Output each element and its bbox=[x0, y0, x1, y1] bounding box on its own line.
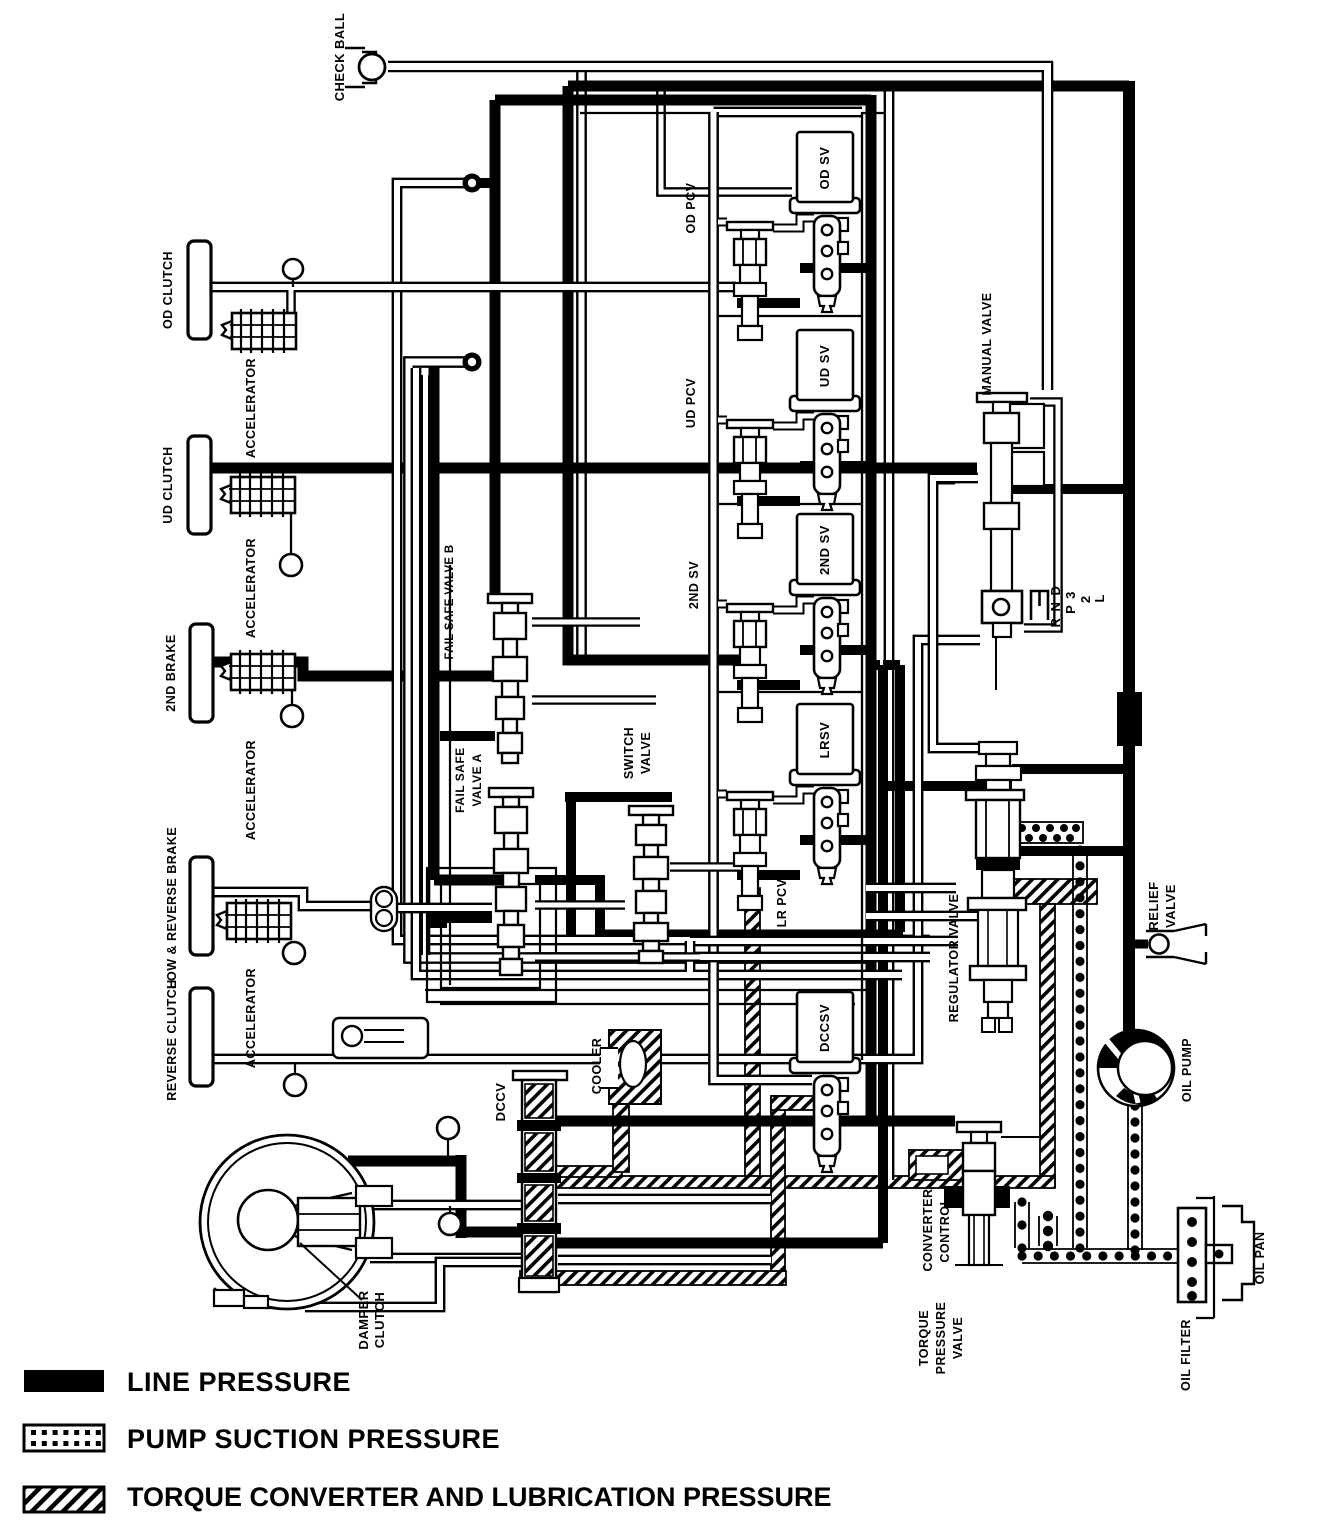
solenoid stem DCCSV bbox=[814, 1076, 848, 1172]
wire tap from check ball line bbox=[576, 72, 587, 655]
svg-text:UD PCV: UD PCV bbox=[684, 378, 698, 428]
wire left pipe bundle D bbox=[421, 375, 431, 955]
svg-text:TORQUE CONVERTER AND LUBRICATI: TORQUE CONVERTER AND LUBRICATION PRESSUR… bbox=[127, 1482, 832, 1512]
wire valve body top pipe bbox=[714, 107, 863, 118]
valve MANUAL VALVE bbox=[977, 393, 1044, 690]
wire valve body right edge bbox=[861, 112, 863, 1060]
solenoid valve 2ND SV bbox=[790, 514, 860, 595]
wire suction converter control bbox=[1015, 1197, 1029, 1252]
svg-text:CHECK BALL: CHECK BALL bbox=[332, 13, 347, 102]
svg-text:CONTROL: CONTROL bbox=[938, 1197, 952, 1262]
wire manual valve to regulator pipe bbox=[933, 478, 1013, 748]
valve DCCV bbox=[513, 1071, 567, 1292]
wire thick 2ND PCV stub bbox=[737, 680, 800, 690]
svg-text:REGULATOR VALVE: REGULATOR VALVE bbox=[947, 894, 961, 1023]
wire band extra line 1 bbox=[425, 989, 868, 991]
label LINE PRESSURE bbox=[127, 1367, 351, 1397]
valve FAIL SAFE VALVE A bbox=[489, 788, 533, 975]
label FAIL SAFE VALVE B bbox=[444, 544, 456, 659]
svg-text:OIL PAN: OIL PAN bbox=[1253, 1231, 1267, 1284]
wire thick relief valve stub bbox=[1135, 940, 1148, 949]
svg-text:RELIEF: RELIEF bbox=[1146, 881, 1161, 930]
wire LR PCV feed bbox=[718, 790, 727, 799]
oil pan bbox=[1196, 1196, 1254, 1318]
wire switch valve to LR PCV pipe bbox=[670, 862, 740, 872]
label SWITCH VALVE line2 bbox=[639, 732, 653, 774]
svg-text:UD SV: UD SV bbox=[817, 345, 832, 387]
legend torque converter swatch bbox=[24, 1487, 104, 1512]
valve LR PCV bbox=[727, 792, 773, 910]
valve 2ND PCV bbox=[727, 604, 773, 722]
label CONTROL bbox=[938, 1197, 952, 1262]
label DCCV bbox=[493, 1083, 508, 1122]
wire hatched stub at converter control bbox=[909, 1150, 964, 1180]
wire thick switch valve feed bbox=[565, 792, 672, 802]
wire OD PCV feed bbox=[718, 218, 727, 227]
solenoid valve UD SV bbox=[790, 330, 860, 411]
svg-text:DAMPER: DAMPER bbox=[356, 1290, 371, 1349]
wire thick band bottom bbox=[602, 930, 903, 939]
wire thick regulator to right bus bbox=[1012, 764, 1129, 774]
label CHECK BALL bbox=[332, 13, 347, 102]
wire thick block left of fail safe A bbox=[430, 908, 447, 928]
wire fail safe B out bbox=[532, 617, 640, 627]
label OD CLUTCH bbox=[161, 251, 175, 329]
brake LOW-REVERSE bar bbox=[190, 857, 213, 955]
svg-text:VALVE: VALVE bbox=[639, 732, 653, 774]
wire low-reverse brake pipe bbox=[212, 892, 372, 906]
wire thick regulator left feed bbox=[880, 781, 1012, 791]
wire thick third vertical bbox=[895, 665, 905, 932]
check ball CHECK BALL bbox=[345, 48, 385, 87]
wire thick UD SV stem stub bbox=[800, 461, 871, 471]
label SWITCH bbox=[622, 727, 636, 779]
label ACCELERATOR 1 bbox=[244, 358, 258, 458]
wire fail safe A out bbox=[535, 900, 625, 910]
wire suction regulator vertical bbox=[1073, 845, 1087, 1252]
wire thick DCCV to converter control line bbox=[556, 1116, 955, 1127]
svg-text:DCCSV: DCCSV bbox=[817, 1004, 832, 1052]
wire OD SV feed pipe bbox=[661, 90, 792, 192]
svg-text:R N D: R N D bbox=[1048, 585, 1063, 628]
svg-text:VALVE A: VALVE A bbox=[470, 753, 484, 806]
label P 3 bbox=[1063, 590, 1078, 614]
solenoid valve LRSV bbox=[790, 704, 860, 785]
node junction A bbox=[463, 174, 482, 193]
svg-text:LINE PRESSURE: LINE PRESSURE bbox=[127, 1367, 351, 1397]
wire thick regulator lower to right bus bbox=[1013, 846, 1129, 856]
wire suction pump down bbox=[1128, 1101, 1142, 1254]
label R N D bbox=[1048, 585, 1063, 628]
label OIL FILTER bbox=[1179, 1319, 1193, 1391]
svg-text:OD CLUTCH: OD CLUTCH bbox=[161, 251, 175, 329]
wire thick stub junction mid bbox=[434, 357, 471, 367]
wire valve body partitions bbox=[718, 316, 862, 692]
wire thick stub junction top bbox=[471, 178, 497, 188]
solenoid stem UD SV bbox=[814, 414, 848, 510]
wire thick third vertical cap bbox=[883, 660, 900, 670]
label MANUAL VALVE bbox=[980, 292, 994, 395]
wire hatched pipe cooler down bbox=[613, 1095, 629, 1172]
wire valve body left pipe bbox=[714, 112, 813, 1080]
accumulator LR bbox=[217, 899, 291, 943]
accumulator UD bbox=[221, 473, 295, 517]
svg-text:CONVERTER: CONVERTER bbox=[921, 1189, 935, 1272]
label REGULATOR VALVE bbox=[947, 894, 961, 1023]
clutch REVERSE bar bbox=[190, 988, 213, 1086]
ball chamber on reverse line bbox=[333, 1018, 428, 1058]
wire thick UD PCV stub bbox=[737, 496, 800, 506]
wire thick right bus block bbox=[1117, 692, 1142, 746]
wire thick into fail safe valve B bbox=[490, 100, 501, 600]
wire thick OD PCV stub bbox=[737, 298, 800, 308]
solenoid stem 2ND SV bbox=[814, 598, 848, 694]
wire thick manual valve stub bbox=[930, 476, 955, 485]
wire suction regulator band bbox=[1013, 822, 1083, 843]
label TORQUE bbox=[917, 1310, 931, 1366]
svg-text:2ND SV: 2ND SV bbox=[687, 561, 701, 609]
wire thick second top bus bbox=[495, 95, 871, 106]
label PRESSURE bbox=[934, 1302, 948, 1375]
wire thick UD clutch line to manual valve bbox=[212, 463, 977, 474]
label 2 bbox=[1078, 595, 1093, 603]
oil filter bbox=[1178, 1208, 1232, 1302]
label FAIL SAFE A line1 bbox=[453, 747, 467, 813]
torque converter bbox=[200, 1135, 392, 1309]
wire DCCV to lube box lower bbox=[558, 1255, 771, 1266]
label 2ND BRAKE bbox=[164, 634, 178, 711]
check ball on OD line bbox=[283, 259, 303, 279]
label FAIL SAFE A line2 bbox=[470, 753, 484, 806]
wire thick OD SV stem stub bbox=[800, 263, 871, 273]
wire thick top bus bbox=[568, 81, 1129, 92]
wire thick into fail safe valve A bbox=[434, 875, 505, 886]
label OIL PAN bbox=[1253, 1231, 1267, 1284]
wire band extra line 2 bbox=[440, 1003, 855, 1005]
check ball below UD accumulator bbox=[280, 554, 302, 576]
wire thick switch valve left vertical bbox=[566, 797, 576, 940]
wire hatched lube stub at regulator bbox=[1013, 879, 1097, 904]
svg-text:UD CLUTCH: UD CLUTCH bbox=[161, 446, 175, 523]
svg-text:2: 2 bbox=[1078, 595, 1093, 603]
solenoid valve DCCSV bbox=[790, 992, 860, 1073]
solenoid valve OD SV bbox=[790, 132, 860, 213]
svg-text:ACCELERATOR: ACCELERATOR bbox=[244, 740, 258, 840]
wire converter to DCCV lower bbox=[370, 1253, 523, 1264]
valve RELIEF VALVE bbox=[1146, 924, 1206, 964]
wire 2ND PCV feed bbox=[718, 600, 727, 609]
wire LR PCV to SV pipe bbox=[773, 790, 814, 800]
wire thin vertical x450 bbox=[449, 565, 451, 985]
svg-text:PUMP SUCTION PRESSURE: PUMP SUCTION PRESSURE bbox=[127, 1424, 500, 1454]
wire hatched lube pipe vertical right bbox=[1040, 904, 1055, 1186]
label ACCELERATOR 2 bbox=[244, 538, 258, 638]
svg-text:OD SV: OD SV bbox=[817, 147, 832, 190]
label CLUTCH bbox=[372, 1292, 387, 1348]
wire thick right bus vertical bbox=[1123, 81, 1135, 1036]
solenoid stem OD SV bbox=[814, 216, 848, 312]
wire reverse clutch pipe bbox=[212, 640, 980, 1059]
svg-text:ACCELERATOR: ACCELERATOR bbox=[244, 538, 258, 638]
wire thick valve-body left vertical bbox=[866, 95, 877, 1121]
wire hatched lube pipe horizontal main bbox=[553, 1176, 1055, 1188]
wire thick manual valve to right bus bbox=[1007, 484, 1123, 494]
svg-text:ACCELERATOR: ACCELERATOR bbox=[244, 968, 258, 1068]
valve OD PCV bbox=[727, 222, 773, 340]
svg-text:P 3: P 3 bbox=[1063, 590, 1078, 614]
label L bbox=[1092, 594, 1107, 603]
wire band pipe to regulator B bbox=[866, 911, 1008, 922]
wire thick 2nd brake line bbox=[212, 662, 500, 676]
wire left pipe bundle A bbox=[397, 183, 930, 940]
wire thick LR SV stem stub bbox=[800, 835, 871, 845]
valve SWITCH VALVE bbox=[629, 806, 673, 963]
label ACCELERATOR 3 bbox=[244, 740, 258, 840]
wire manual valve right loop bbox=[1024, 402, 1058, 628]
wire hatched lube pipe vertical short bbox=[771, 1096, 785, 1271]
label LR PCV bbox=[775, 878, 789, 927]
valve FAIL SAFE VALVE B bbox=[488, 594, 532, 763]
wire suction horizontal to filter bbox=[1017, 1249, 1204, 1263]
wire 2ND PCV to SV pipe bbox=[773, 600, 814, 610]
label LOW REVERSE BRAKE bbox=[165, 827, 179, 989]
svg-text:CLUTCH: CLUTCH bbox=[372, 1292, 387, 1348]
wire valve body top edge bbox=[580, 112, 885, 114]
wire left pipe bundle B bbox=[409, 362, 868, 958]
wire thick 2ND SV stem stub bbox=[800, 645, 871, 655]
svg-text:FAIL SAFE: FAIL SAFE bbox=[453, 747, 467, 813]
wire thick fail safe A to switch area bbox=[535, 880, 600, 935]
svg-text:REVERSE CLUTCH: REVERSE CLUTCH bbox=[165, 979, 179, 1101]
wire thick converter feed bbox=[348, 1156, 461, 1167]
label TP VALVE line3 bbox=[951, 1317, 965, 1359]
node junction B bbox=[463, 353, 482, 372]
brake 2ND BRAKE bar bbox=[190, 624, 213, 722]
clutch UD CLUTCH bar bbox=[188, 436, 211, 534]
wire thick left vertical to fail safe A bbox=[429, 362, 440, 880]
wire hatched lube pipe bottom bbox=[520, 1271, 786, 1285]
svg-text:OIL FILTER: OIL FILTER bbox=[1179, 1319, 1193, 1391]
check ball below 2ND accumulator bbox=[281, 705, 303, 727]
svg-text:ACCELERATOR: ACCELERATOR bbox=[244, 358, 258, 458]
cooler bbox=[600, 1030, 661, 1104]
check ball near DCCV upper bbox=[437, 1117, 459, 1139]
legend line pressure swatch bbox=[24, 1370, 104, 1392]
svg-text:2ND BRAKE: 2ND BRAKE bbox=[164, 634, 178, 711]
wire thick joint bbox=[871, 660, 880, 670]
node gear selector indicator bbox=[1031, 591, 1048, 620]
damper clutch leader bbox=[300, 1243, 362, 1300]
label DAMPER bbox=[356, 1290, 371, 1349]
wire suction corner blob bbox=[1039, 1211, 1057, 1251]
wire pipe balls to fail safe A bbox=[396, 903, 492, 914]
accumulator 2ND bbox=[221, 650, 295, 694]
svg-text:2ND SV: 2ND SV bbox=[817, 525, 832, 575]
wire valve body right border pipe bbox=[884, 90, 895, 1180]
label COOLER bbox=[590, 1038, 604, 1094]
wire lower cross pipe B bbox=[690, 952, 930, 963]
wire hatched short stub cooler to DCCV bbox=[556, 1166, 622, 1177]
wire 2ND accumulator ball stem bbox=[291, 690, 293, 707]
wire band pipe to regulator A bbox=[866, 883, 956, 894]
solenoid stem LRSV bbox=[814, 788, 848, 884]
check ball below LR accumulator bbox=[283, 942, 305, 964]
wire fail safe B lower out bbox=[532, 695, 656, 705]
svg-text:VALVE: VALVE bbox=[1163, 884, 1178, 928]
svg-text:TORQUE: TORQUE bbox=[917, 1310, 931, 1366]
wire nested loop A bbox=[427, 868, 556, 1002]
clutch OD CLUTCH bar bbox=[188, 241, 211, 339]
pump OIL PUMP bbox=[1098, 1030, 1174, 1106]
svg-text:PRESSURE: PRESSURE bbox=[934, 1302, 948, 1375]
wire hatched lube pipe vertical from regulator bbox=[745, 888, 760, 1180]
svg-text:FAIL SAFE VALVE B: FAIL SAFE VALVE B bbox=[444, 544, 456, 659]
accumulator OD bbox=[222, 309, 296, 353]
svg-text:COOLER: COOLER bbox=[590, 1038, 604, 1094]
svg-text:DCCV: DCCV bbox=[493, 1083, 508, 1122]
valve CONVERTER CONTROL bbox=[944, 1122, 1039, 1265]
wire converter to DCCV upper bbox=[370, 1200, 523, 1211]
svg-text:MANUAL VALVE: MANUAL VALVE bbox=[980, 292, 994, 395]
label OIL PUMP bbox=[1180, 1038, 1194, 1102]
wire fail safe A lower out bbox=[535, 952, 700, 962]
label RELIEF VALVE line2 bbox=[1163, 884, 1178, 928]
wire check ball pipe to manual valve bbox=[388, 67, 1048, 391]
wire UD PCV to SV pipe bbox=[773, 416, 814, 426]
wire UD accumulator ball stem bbox=[290, 512, 292, 556]
wire thick into DCCV bbox=[461, 1227, 523, 1238]
legend pump suction swatch bbox=[24, 1425, 104, 1451]
svg-text:L: L bbox=[1092, 594, 1107, 603]
label PUMP SUCTION PRESSURE bbox=[127, 1424, 500, 1454]
wire lower cross joint bbox=[685, 941, 696, 972]
wire left pipe bundle C bbox=[416, 368, 902, 975]
wire thick right-of-valve-body vertical bbox=[878, 665, 888, 1243]
wire OD PCV to SV pipe bbox=[773, 218, 814, 228]
wire DCCV to lube box upper bbox=[558, 1194, 771, 1205]
wire nested loop B bbox=[441, 884, 540, 988]
label RELIEF bbox=[1146, 881, 1161, 930]
wire OD accumulator branch bbox=[286, 290, 296, 315]
svg-text:OD PCV: OD PCV bbox=[684, 182, 698, 233]
svg-text:SWITCH: SWITCH bbox=[622, 727, 636, 779]
wire UD PCV feed bbox=[718, 416, 727, 425]
wire thick LR PCV stub bbox=[737, 870, 800, 880]
wire hatched stub to DCCSV bbox=[771, 1096, 815, 1110]
wire lower cross pipe A bbox=[690, 936, 958, 947]
label OD PCV bbox=[684, 182, 698, 233]
label UD CLUTCH bbox=[161, 446, 175, 523]
wire converter bottom pipe bbox=[305, 1262, 521, 1307]
svg-text:LR PCV: LR PCV bbox=[775, 878, 789, 927]
label CONVERTER bbox=[921, 1189, 935, 1272]
svg-text:LOW & REVERSE BRAKE: LOW & REVERSE BRAKE bbox=[165, 827, 179, 989]
svg-text:VALVE: VALVE bbox=[951, 1317, 965, 1359]
valve UD PCV bbox=[727, 420, 773, 538]
wire thick DCC bottom line bbox=[556, 1238, 883, 1249]
svg-text:OIL PUMP: OIL PUMP bbox=[1180, 1038, 1194, 1102]
wire thick stub fail safe B bottom bbox=[440, 731, 495, 741]
wire thick to 2nd PCV bbox=[568, 86, 740, 660]
label UD PCV bbox=[684, 378, 698, 428]
valve REGULATOR VALVE bbox=[966, 742, 1026, 1032]
wire OD clutch pipe bbox=[212, 282, 736, 293]
label REVERSE CLUTCH bbox=[165, 979, 179, 1101]
svg-text:LRSV: LRSV bbox=[817, 722, 832, 759]
wire thick stub into fail safe A lower bbox=[430, 913, 492, 923]
check ball pair oval bbox=[371, 887, 397, 931]
label 2ND SV left bbox=[687, 561, 701, 609]
label TORQUE CONVERTER AND LUBRICATION PRESSURE bbox=[127, 1482, 832, 1512]
wire thick converter feed vertical bbox=[456, 1155, 467, 1238]
check ball near DCCV lower bbox=[439, 1213, 461, 1235]
label ACCELERATOR 4 bbox=[244, 968, 258, 1068]
check ball below reverse line bbox=[284, 1074, 306, 1096]
